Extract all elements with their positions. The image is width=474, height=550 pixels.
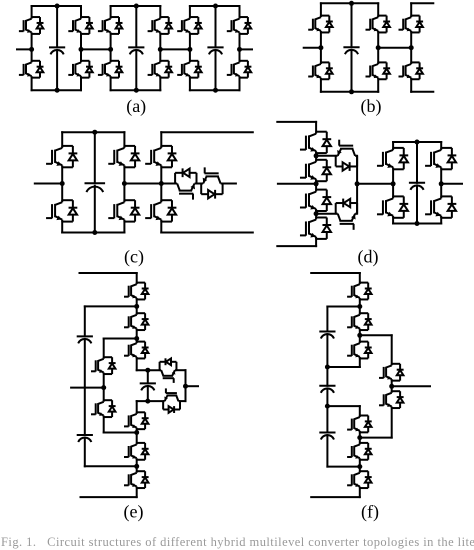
transistor Sd7b (IGBT with antiparallel diode): [377, 196, 408, 217]
transistor Sc3b (IGBT with antiparallel diode): [145, 200, 176, 221]
wire: [359, 358, 361, 367]
wire: [85, 465, 137, 467]
junction: [187, 47, 192, 52]
wire top rail cell 3 fig a: [190, 5, 240, 7]
capacitor Cd: [409, 183, 425, 190]
wire: [61, 167, 63, 200]
transistor Sa32 (IGBT with antiparallel diode): [177, 61, 202, 78]
transistor Se8 (IGBT with antiparallel diode): [163, 388, 180, 413]
wire: [176, 369, 185, 371]
wire bottom rail right section fig c: [161, 232, 253, 234]
wire: [416, 185, 418, 223]
transistor Sa12 (IGBT with antiparallel diode): [19, 61, 44, 78]
figure caption (clipped at page bottom): [1, 535, 473, 550]
junction: [213, 4, 218, 9]
wire: [392, 169, 394, 196]
junction: [376, 45, 381, 50]
transistor Sb1b (IGBT with antiparallel diode): [308, 62, 333, 79]
wire: [359, 330, 361, 342]
transistor Se6 (IGBT with antiparallel diode): [124, 471, 149, 488]
junction: [134, 336, 139, 341]
wire: [147, 386, 149, 401]
wire: [137, 400, 163, 402]
transistor Se10 (IGBT with antiparallel diode): [91, 400, 116, 417]
transistor Se7 (IGBT with antiparallel diode): [160, 358, 177, 383]
wire: [31, 34, 33, 61]
transistor Sd2 (IGBT with antiparallel diode): [300, 160, 331, 181]
wire top rail H-bridge fig d: [393, 141, 441, 143]
wire: [377, 3, 379, 15]
wire: [110, 78, 112, 91]
transistor Sc1b (IGBT with antiparallel diode): [46, 200, 77, 221]
wire: [239, 78, 241, 91]
wire: [410, 79, 412, 92]
wire bottom rail cell 1 fig a: [32, 89, 81, 91]
wire: [440, 169, 442, 196]
transistor Sa33 (IGBT with antiparallel diode): [227, 17, 252, 34]
transistor Sd8b (IGBT with antiparallel diode): [425, 196, 456, 217]
wire: [84, 306, 86, 336]
wire: [56, 6, 58, 47]
transistor Sa22 (IGBT with antiparallel diode): [98, 61, 123, 78]
transistor Sd8t (IGBT with antiparallel diode): [425, 148, 456, 169]
transistor Sd1 (IGBT with antiparallel diode): [300, 132, 331, 153]
wire: [159, 78, 161, 91]
junction: [29, 47, 34, 52]
wire: [326, 435, 328, 467]
capacitor Ca1: [49, 47, 65, 54]
wire: [136, 330, 138, 342]
junction: [349, 89, 354, 94]
transistor Sc1t (IGBT with antiparallel diode): [46, 146, 77, 167]
wire bottom rail cell 2 fig a: [111, 89, 161, 91]
wire: [61, 222, 63, 233]
wire ac input stub fig a: [17, 48, 32, 50]
svg-text:(b): (b): [361, 96, 382, 117]
wire: [136, 488, 138, 497]
transistor Sc3t (IGBT with antiparallel diode): [145, 146, 176, 167]
wire: [80, 78, 82, 91]
wire: [315, 239, 317, 246]
wire top rail fig b: [321, 2, 378, 4]
capacitor Cf3: [319, 433, 335, 440]
wire: [315, 211, 317, 218]
wire: [327, 306, 359, 308]
junction: [55, 88, 60, 93]
junction: [159, 181, 164, 186]
figure (f): hybrid multilevel leg with cascaded capacitors: [311, 273, 430, 523]
transistor Sb3b (IGBT with antiparallel diode): [399, 62, 424, 79]
transistor Se9 (IGBT with antiparallel diode): [91, 357, 116, 374]
junction: [92, 130, 97, 135]
junction: [415, 221, 420, 226]
wire output stub fig d: [441, 183, 462, 185]
wire: [356, 156, 358, 184]
transistor Sf1 (IGBT with antiparallel diode): [347, 283, 372, 300]
wire: [320, 3, 322, 15]
wire: [136, 358, 138, 370]
wire: [356, 184, 358, 214]
wire bottom stub fig d: [277, 245, 316, 247]
wire: [136, 460, 138, 471]
capacitor Cf1: [319, 332, 335, 339]
wire: [326, 334, 328, 386]
transistor Sc2b (IGBT with antiparallel diode): [108, 200, 139, 221]
junction: [134, 88, 139, 93]
capacitor Ce1: [77, 336, 93, 343]
wire: [440, 142, 442, 148]
wire: [104, 432, 137, 434]
wire: [110, 34, 112, 61]
wire: [316, 213, 336, 215]
wire: [215, 50, 217, 90]
wire bottom rail fig b: [321, 91, 378, 93]
junction: [134, 430, 139, 435]
wire: [391, 381, 393, 392]
transistor Se3 (IGBT with antiparallel diode): [124, 342, 149, 359]
capacitor Cc: [85, 183, 106, 192]
junction: [145, 368, 150, 373]
transistor Sf5 (IGBT with antiparallel diode): [347, 443, 372, 460]
wire: [135, 50, 137, 90]
wire: [159, 34, 161, 61]
wire: [161, 183, 175, 185]
wire: [160, 167, 162, 200]
capacitor Cf2: [319, 386, 335, 393]
wire mid input stub fig d: [278, 183, 316, 185]
wire: [189, 78, 191, 91]
capacitor Ca3: [207, 47, 223, 54]
wire: [359, 299, 361, 313]
junction: [134, 4, 139, 9]
wire mid link fig b: [378, 47, 411, 49]
wire top rail cell 1 fig a: [32, 5, 81, 7]
wire link cell1-cell2 fig a: [81, 48, 111, 50]
transistor Sd6 (IGBT with antiparallel diode): [336, 199, 357, 230]
wire bottom stub right leg fig b: [411, 91, 433, 93]
wire bottom stub fig e: [81, 496, 137, 498]
transistor Sf2 (IGBT with antiparallel diode): [347, 313, 372, 330]
transistor Sd3 (IGBT with antiparallel diode): [300, 190, 331, 211]
wire: [391, 335, 393, 364]
wire: [320, 32, 322, 62]
transistor Sb3t (IGBT with antiparallel diode): [399, 16, 424, 33]
wire: [327, 466, 359, 468]
wire: [360, 334, 392, 336]
junction: [391, 181, 396, 186]
wire: [180, 400, 186, 402]
wire top rail right section fig c: [161, 131, 253, 133]
junction: [439, 181, 444, 186]
junction: [60, 181, 65, 186]
wire: [326, 307, 328, 332]
wire mid link fig c: [124, 183, 161, 185]
wire: [327, 405, 359, 407]
junction: [183, 384, 188, 389]
wire: [189, 6, 191, 17]
wire: [359, 273, 361, 283]
junction: [92, 230, 97, 235]
junction: [213, 88, 218, 93]
wire: [103, 374, 105, 400]
transistor Sc4 (IGBT with antiparallel diode): [175, 168, 196, 199]
svg-text:(c): (c): [124, 246, 144, 267]
wire: [147, 370, 149, 383]
junction: [357, 435, 362, 440]
wire bottom rail cell 3 fig a: [190, 89, 240, 91]
transistor Sf7 (IGBT with antiparallel diode): [379, 364, 404, 381]
wire: [136, 401, 138, 412]
wire output stub fig f: [392, 385, 430, 387]
junction: [415, 140, 420, 145]
wire: [84, 339, 86, 435]
wire: [359, 488, 361, 497]
transistor Sa11 (IGBT with antiparallel diode): [19, 17, 44, 34]
wire bottom rail H-bridge fig d: [393, 223, 441, 225]
svg-text:(f): (f): [361, 502, 379, 523]
junction: [101, 385, 106, 390]
wire: [94, 132, 96, 183]
capacitor Ce2: [77, 435, 93, 442]
capacitor Ca2: [128, 47, 144, 54]
wire: [185, 370, 187, 401]
capacitor Cb: [343, 47, 359, 54]
transistor Sc5 (IGBT with antiparallel diode): [201, 167, 222, 198]
wire: [316, 155, 336, 157]
wire: [416, 142, 418, 183]
wire: [315, 122, 317, 132]
figure (c): hybrid converter with bidirectional switch: [35, 130, 253, 268]
junction: [134, 304, 139, 309]
wire: [377, 32, 379, 62]
wire: [110, 6, 112, 17]
figure (e): hybrid multilevel leg with flying capacitors: [71, 273, 198, 523]
wire: [239, 34, 241, 61]
transistor Sb1t (IGBT with antiparallel diode): [308, 16, 333, 33]
transistor Sd7t (IGBT with antiparallel diode): [377, 148, 408, 169]
wire: [80, 34, 82, 61]
junction: [158, 47, 163, 52]
wire: [315, 153, 317, 160]
wire: [359, 460, 361, 471]
wire bottom stub fig f: [311, 496, 360, 498]
wire: [326, 388, 328, 432]
junction: [325, 404, 330, 409]
wire link cell2-cell3 fig a: [160, 48, 190, 50]
wire: [189, 34, 191, 61]
junction: [314, 153, 319, 158]
wire: [103, 339, 105, 358]
wire ac output stub fig a: [240, 48, 253, 50]
capacitor Ce3: [140, 383, 156, 390]
transistor Sa34 (IGBT with antiparallel diode): [227, 61, 252, 78]
transistor Sc2t (IGBT with antiparallel diode): [108, 146, 139, 167]
figure (d): hybrid converter, clamped leg with H-bridge cell: [277, 122, 462, 267]
wire: [359, 432, 361, 443]
wire: [136, 299, 138, 313]
junction: [134, 464, 139, 469]
wire: [61, 132, 63, 146]
wire: [123, 132, 125, 146]
transistor Sa13 (IGBT with antiparallel diode): [68, 17, 93, 34]
junction: [318, 45, 323, 50]
wire: [360, 437, 392, 439]
wire: [136, 273, 138, 283]
wire: [392, 218, 394, 224]
transistor Sa14 (IGBT with antiparallel diode): [68, 61, 93, 78]
junction: [357, 333, 362, 338]
transistor Sb2t (IGBT with antiparallel diode): [366, 16, 391, 33]
wire: [327, 366, 359, 368]
wire bottom rail fig c: [62, 232, 124, 234]
junction: [145, 399, 150, 404]
transistor Se4 (IGBT with antiparallel diode): [124, 412, 149, 429]
junction: [108, 47, 113, 52]
transistor Sf8 (IGBT with antiparallel diode): [379, 391, 404, 408]
wire top stub fig f: [311, 272, 360, 274]
wire top rail cell 2 fig a: [111, 5, 161, 7]
junction: [122, 181, 127, 186]
wire: [197, 183, 202, 185]
junction: [389, 384, 394, 389]
transistor Sa21 (IGBT with antiparallel diode): [98, 17, 123, 34]
transistor Se1 (IGBT with antiparallel diode): [124, 283, 149, 300]
transistor Se5 (IGBT with antiparallel diode): [124, 443, 149, 460]
transistor Sf3 (IGBT with antiparallel diode): [347, 342, 372, 359]
wire: [80, 6, 82, 17]
junction: [409, 45, 414, 50]
wire: [160, 222, 162, 233]
junction: [314, 211, 319, 216]
wire input stub fig b: [304, 47, 321, 49]
transistor Sa24 (IGBT with antiparallel diode): [148, 61, 173, 78]
wire: [351, 50, 353, 92]
transistor Sd5 (IGBT with antiparallel diode): [336, 140, 357, 171]
wire: [94, 186, 96, 233]
wire top stub fig e: [80, 272, 137, 274]
wire: [215, 6, 217, 47]
wire output stub fig e: [186, 385, 199, 387]
wire input stub fig c: [35, 183, 62, 185]
figure (a): cascaded H-bridge converter: [17, 4, 252, 118]
wire: [84, 438, 86, 467]
wire: [135, 6, 137, 47]
wire: [56, 50, 58, 90]
transistor Sa31 (IGBT with antiparallel diode): [177, 17, 202, 34]
svg-text:(d): (d): [358, 246, 379, 267]
wire: [85, 305, 137, 307]
junction: [355, 181, 360, 186]
wire: [351, 3, 353, 47]
junction: [237, 47, 242, 52]
wire: [315, 181, 317, 189]
junction: [357, 304, 362, 309]
wire: [103, 417, 105, 432]
wire: [137, 369, 160, 371]
wire input stub fig e: [71, 387, 104, 389]
wire: [123, 222, 125, 233]
wire top stub right leg fig b: [411, 2, 433, 4]
transistor Sa23 (IGBT with antiparallel diode): [148, 17, 173, 34]
transistor Sf6 (IGBT with antiparallel diode): [347, 471, 372, 488]
junction: [349, 1, 354, 6]
wire: [359, 406, 361, 415]
wire: [31, 78, 33, 91]
junction: [314, 181, 319, 186]
wire: [31, 6, 33, 17]
wire top stub fig d: [277, 121, 316, 123]
transistor Sb2b (IGBT with antiparallel diode): [366, 62, 391, 79]
wire output stub fig c: [223, 183, 236, 185]
wire: [410, 32, 412, 62]
svg-text:(e): (e): [124, 502, 144, 523]
wire: [160, 132, 162, 146]
wire top rail fig c: [62, 131, 124, 133]
svg-text:(a): (a): [126, 96, 146, 117]
transistor Se2 (IGBT with antiparallel diode): [124, 313, 149, 330]
wire: [136, 429, 138, 443]
figure (b): hybrid H-bridge with series half-bridge: [304, 1, 434, 117]
wire: [320, 79, 322, 92]
wire: [440, 218, 442, 224]
junction: [325, 365, 330, 370]
wire: [159, 6, 161, 17]
wire: [104, 338, 137, 340]
wire: [123, 167, 125, 200]
transistor Sd4 (IGBT with antiparallel diode): [300, 218, 331, 239]
junction: [55, 4, 60, 9]
wire: [391, 408, 393, 438]
wire node to H-bridge fig d: [357, 183, 393, 185]
junction: [79, 47, 84, 52]
transistor Sf4 (IGBT with antiparallel diode): [347, 416, 372, 433]
junction: [357, 464, 362, 469]
wire: [410, 3, 412, 15]
wire: [239, 6, 241, 17]
wire: [377, 79, 379, 92]
wire: [392, 142, 394, 148]
